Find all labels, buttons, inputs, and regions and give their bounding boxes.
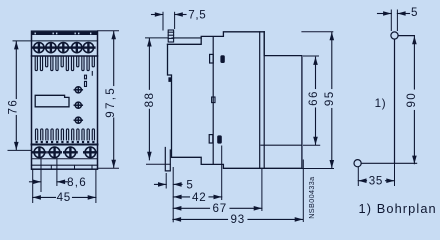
svg-text:45: 45 <box>57 191 71 204</box>
dimension 67: dimension line <box>173 207 209 209</box>
dimension 76: extension lines <box>13 40 32 42</box>
dimension 7,5: arrows <box>152 14 164 16</box>
front view: bottom strip <box>32 164 98 166</box>
dimension 45: extension lines <box>32 169 34 202</box>
svg-text:1) Bohrplan: 1) Bohrplan <box>359 201 437 216</box>
dimension 35: extension lines <box>357 167 359 185</box>
screw T4 <box>71 43 83 53</box>
bohrplan: bottom hole line <box>361 162 416 164</box>
svg-text:35: 35 <box>369 174 383 187</box>
dimension 45: left arrow <box>33 195 41 200</box>
dimension 8,6: left arrow <box>33 180 41 185</box>
svg-text:42: 42 <box>192 191 206 204</box>
dimension 88: top arrow <box>147 38 152 46</box>
svg-text:7,5: 7,5 <box>188 8 206 21</box>
svg-text:76: 76 <box>6 99 19 115</box>
screw T1 <box>33 43 45 53</box>
dimension 97,5: extension lines <box>98 30 119 32</box>
dimension 35: dimension line <box>358 180 366 182</box>
small screw <box>74 102 82 108</box>
dimension 66: bottom arrow <box>313 137 318 145</box>
screw T2 <box>45 43 57 53</box>
dimension 97,5: bottom arrow <box>111 160 116 168</box>
dimension 93: right arrow <box>295 217 303 222</box>
svg-text:NSB00433a: NSB00433a <box>307 176 316 218</box>
dimension 97,5: top arrow <box>111 31 116 39</box>
side view: divider mid notch <box>212 97 215 103</box>
svg-text:90: 90 <box>405 92 418 108</box>
front view: line below lower screws <box>32 158 98 160</box>
dimension 88: dimension line <box>148 38 150 89</box>
screw B3 <box>64 147 76 158</box>
dimension 66: bottom extension line <box>304 144 320 146</box>
front view: thick line below lower slots <box>32 144 98 146</box>
dimension 93: left arrow <box>173 217 181 222</box>
side view: bottom clip open rect <box>209 135 213 143</box>
dimension 42: right arrow <box>214 195 222 200</box>
dimension 95: top arrow <box>330 32 335 40</box>
side view: bottom clip filled rect <box>217 135 222 143</box>
svg-text:8,6: 8,6 <box>67 176 87 189</box>
dimension 95: dimension line <box>331 32 333 88</box>
dimension 90: dimension line <box>413 36 415 89</box>
dimension 90: bottom arrow <box>412 156 417 164</box>
dimension 67: extension line right <box>261 169 263 211</box>
bohrplan: top hole to 90-line <box>398 35 414 37</box>
dimension 76: top arrow <box>14 41 19 49</box>
dimension 45: right arrow <box>88 195 96 200</box>
svg-text:66: 66 <box>307 90 320 106</box>
side view: internal vertical B <box>263 32 265 169</box>
dimension 5: right arrow <box>173 182 181 187</box>
dimension 7,5: extension lines <box>162 12 164 30</box>
dimension 90: top arrow <box>412 36 417 44</box>
front view: line below upper screws <box>32 55 98 57</box>
dimension 88: bottom arrow <box>147 152 152 160</box>
screw B4 <box>84 147 96 158</box>
dimension 88: extension lines <box>146 37 169 39</box>
dimension 8,6: extension lines <box>40 159 42 192</box>
svg-text:67: 67 <box>213 202 227 215</box>
svg-text:1): 1) <box>375 97 387 110</box>
side view: internal step line <box>261 144 302 146</box>
front view: top band (solid) <box>32 32 97 35</box>
dimension 76: dimension line <box>15 42 17 99</box>
front view: upper vent slots <box>35 57 94 71</box>
side view: top clip filled rect <box>220 55 224 63</box>
dimension 95: bottom extension line <box>302 168 334 170</box>
dimension 35: right arrow <box>386 178 394 183</box>
front view: terminal block top line <box>32 40 98 42</box>
dimension 66: top arrow <box>313 57 318 65</box>
dimension 8,6: arrows and leader <box>30 181 42 183</box>
svg-text:5: 5 <box>186 178 193 191</box>
front view: housing outline <box>32 31 98 169</box>
side view: plateau line above front module <box>172 37 201 39</box>
dimension 35: left arrow <box>358 178 366 183</box>
dimension 8,6: right arrow <box>57 180 65 185</box>
dimension 93: extension line right <box>302 160 304 222</box>
dimension 5: left arrow <box>158 182 166 187</box>
dimension 95: bottom arrow <box>330 160 335 168</box>
dimension 66: top extension line <box>304 55 319 57</box>
screw T5 <box>82 43 94 53</box>
dimension 93: dimension line <box>173 218 228 220</box>
bohrplan: bottom hole <box>354 160 361 167</box>
front view: label window <box>35 95 69 107</box>
dimension 5 (hole): left arrow <box>383 11 391 16</box>
svg-text:5: 5 <box>411 6 418 19</box>
svg-text:88: 88 <box>143 92 156 108</box>
dimension 5 (hole): arrows <box>378 13 392 15</box>
front view: strip ticks <box>51 165 92 168</box>
screw B1 <box>33 147 45 158</box>
dimension 5: extension line <box>165 174 167 189</box>
svg-text:95: 95 <box>323 90 336 106</box>
side view: internal vertical A <box>259 32 261 169</box>
side view: latch block on front face <box>168 77 171 82</box>
dimension 7,5: left arrow <box>155 12 163 17</box>
screw T3 <box>57 43 69 53</box>
dimension 76: bottom arrow <box>14 142 19 150</box>
dimension 42: dimension line <box>173 196 189 198</box>
dimension 67: left arrow <box>173 206 181 211</box>
svg-text:93: 93 <box>231 213 245 226</box>
dimension 42: extension line right <box>221 146 223 200</box>
side view: outline <box>168 32 302 169</box>
long left extension line x=173 <box>172 168 174 222</box>
side view: internal divider line <box>212 37 214 165</box>
side view: front hook <box>165 148 170 171</box>
front view: small slot pair right <box>85 75 87 86</box>
dimension 7,5: right arrow <box>175 12 183 17</box>
svg-text:97,5: 97,5 <box>104 86 117 118</box>
bohrplan: vertical centre line <box>394 39 396 163</box>
front view: small tick below slots <box>91 72 93 76</box>
small screw <box>74 117 82 123</box>
dimension 5: arrows <box>155 183 167 185</box>
dimension 5 (hole): right arrow <box>397 11 405 16</box>
dimension 42: left arrow <box>173 195 181 200</box>
dimension 67: right arrow <box>254 206 262 211</box>
dimension 5 (hole): extension lines <box>390 10 392 31</box>
screw B2 <box>48 147 60 158</box>
small screw <box>74 87 82 93</box>
front view: top band light gaps <box>35 33 92 35</box>
side view: top clip open rect <box>210 54 214 63</box>
dimension 95: top extension line (along device top) <box>302 31 333 33</box>
dimension 66: dimension line <box>315 57 317 88</box>
side view: DIN-rail clamp at top <box>168 30 173 42</box>
dimension 45: dimension line <box>33 196 56 198</box>
dimension 97,5: dimension line <box>113 31 115 85</box>
bohrplan: top hole <box>391 32 398 39</box>
front view: lower vent slots with dots <box>36 129 95 143</box>
